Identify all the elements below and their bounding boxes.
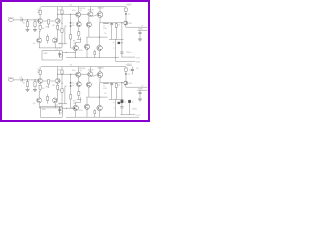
node input junction 1 ch1: [27, 19, 28, 20]
svg-text:Q5: Q5: [80, 70, 83, 72]
wire Q6b down ch1: [88, 27, 90, 37]
wire Q2 to VAS base ch1: [58, 13, 76, 15]
label supply dot ch1: [128, 14, 130, 16]
svg-text:NFB: NFB: [44, 53, 49, 55]
node VAS base junction ch1: [56, 13, 59, 16]
svg-text:C4: C4: [56, 49, 58, 51]
node box wire junction ch2: [65, 107, 68, 110]
label Q8b ch2: [73, 103, 76, 105]
node mid rail junction b ch1: [86, 36, 89, 39]
svg-text:R3: R3: [37, 72, 39, 74]
wire psu cap top ch1: [139, 30, 141, 32]
transistor Q8 ch1: [73, 45, 78, 50]
label zobel2 ch2: [114, 108, 116, 110]
svg-text:C: C: [114, 108, 116, 110]
svg-text:R10: R10: [103, 88, 106, 90]
resistor R9 ch2: [78, 92, 80, 96]
svg-text:R10: R10: [103, 28, 106, 30]
wire Q7 collector ch2: [99, 67, 101, 72]
node input junction 2 ch2: [35, 79, 36, 80]
wire emitters ch1: [43, 20, 56, 22]
label L1 ch1: [103, 26, 105, 28]
wire zobel cap top ch2: [111, 82, 113, 85]
node output junction ch1: [121, 22, 122, 23]
node supply dot ch2: [125, 73, 127, 75]
wire bottom rail ch2: [66, 116, 119, 118]
wire Q4 to gnd line ch1: [54, 43, 56, 48]
label above rail a ch2: [70, 64, 72, 66]
wire D2 down ch2: [70, 87, 72, 95]
label Q4 ch2: [58, 103, 61, 105]
wire signal ground line ch1: [39, 47, 62, 49]
svg-text:OUT: OUT: [136, 57, 141, 59]
svg-text:R3: R3: [37, 12, 39, 14]
transistor Q9 ch1: [84, 44, 89, 49]
svg-text:3055: 3055: [79, 110, 83, 112]
node VAS base junction ch2: [56, 73, 59, 76]
resistor R12 ch1: [70, 35, 72, 39]
wire psu cap top ch2: [139, 90, 141, 92]
label OUT ch2: [136, 115, 141, 117]
transistor Q11 ch1: [124, 21, 128, 25]
svg-text:R1: R1: [23, 83, 25, 85]
wire Q9 collector up ch1: [86, 37, 88, 44]
diode D1 ch2: [70, 82, 72, 83]
label GND ch1: [136, 62, 141, 64]
svg-text:Q5: Q5: [80, 10, 83, 12]
resistor R5 ch2: [39, 85, 41, 89]
wire Q6 emitter down ch2: [88, 77, 90, 82]
transistor Q3 ch2: [37, 98, 42, 103]
wire R2 top ch2: [34, 80, 36, 82]
resistor R13 emitter ch2: [94, 111, 96, 114]
wire input ch1: [14, 19, 21, 21]
svg-text:100n: 100n: [72, 10, 76, 12]
wire psu cap down ch2: [139, 94, 141, 99]
label speaker ch1: [127, 65, 132, 67]
network box ch2: [40, 107, 62, 118]
wire rail to R7 ch2: [61, 67, 63, 70]
resistor R13 emitter ch1: [94, 52, 96, 55]
wire x65 branch ch2: [64, 87, 66, 104]
node R8 top junction ch1: [61, 22, 64, 25]
wire bias top ch1: [70, 14, 72, 22]
label R8v ch2: [58, 90, 61, 92]
cap blob CP2 ch2: [128, 100, 130, 103]
wire Q10 collector up ch1: [99, 23, 101, 46]
ground below R1 ch1: [26, 29, 30, 31]
svg-text:BD139: BD139: [88, 70, 94, 72]
label C7 ch1: [126, 52, 131, 54]
resistor R5 ch1: [39, 25, 41, 29]
wire R7 down ch1: [61, 14, 63, 28]
node gnd line junction ch2: [58, 106, 61, 109]
inductor L1 ch1: [103, 22, 109, 25]
svg-text:D2: D2: [72, 85, 74, 87]
label R6 ch2: [52, 85, 54, 87]
wire rail to R7 ch1: [61, 7, 63, 10]
wire bias to driver ch2: [81, 73, 88, 75]
svg-text:D1: D1: [72, 82, 74, 84]
label zobel1 ch2: [113, 102, 115, 104]
label CP1 ch2: [124, 101, 126, 103]
label Q5 ch2: [80, 68, 86, 70]
wire zobel res down ch1: [115, 27, 117, 39]
svg-text:R: R: [113, 42, 115, 44]
label below rail ch1: [72, 10, 76, 12]
wire Q2 collector ch2: [57, 67, 59, 79]
wire power plus line ch1: [126, 26, 148, 28]
svg-text:2N3055: 2N3055: [98, 8, 105, 10]
label Q5b ch1: [80, 10, 83, 12]
label R10 ch1: [103, 28, 106, 30]
diode D1 ch1: [70, 22, 72, 23]
wire Q8 emitter down ch2: [75, 111, 77, 118]
label R8v ch1: [58, 30, 61, 32]
wire rail end fuse ch2: [125, 67, 127, 68]
node supply dot ch1: [125, 13, 127, 15]
wire output cap branch ch1: [121, 23, 123, 52]
diode D2 ch2: [70, 85, 72, 86]
polar blob ch1: [118, 42, 120, 44]
fuse F1: [125, 8, 128, 11]
wire VAS emitter ch2: [77, 77, 79, 82]
transistor Q4 ch1: [53, 38, 58, 43]
wire x65 branch ch1: [64, 27, 66, 44]
label power ch1: [138, 29, 143, 31]
wire R9 link ch1: [77, 38, 81, 40]
wire R13 down ch2: [94, 109, 96, 117]
label network box ch1: [44, 53, 49, 55]
wire Q7 emitter ch1: [99, 17, 101, 22]
svg-text:R5: R5: [42, 88, 44, 90]
wire R8 down ch1: [61, 32, 63, 47]
wire R1 bottom ch1: [27, 27, 29, 30]
label Q3 ch2: [33, 103, 36, 105]
svg-text:R1: R1: [23, 23, 25, 25]
wire box to Q8 ch2: [62, 107, 76, 109]
transistor Q3 ch1: [37, 38, 42, 43]
svg-text:OUT: OUT: [136, 115, 141, 117]
wire Q5b down ch1: [78, 27, 80, 32]
capacitor C4 in box ch1: [58, 51, 61, 58]
ground below R2 ch1: [33, 29, 37, 31]
label +35V ch2: [126, 63, 132, 66]
transistor Q6 driver ch1: [88, 12, 93, 17]
wire R5 down ch1: [38, 29, 41, 38]
resistor R8 ch2: [61, 88, 63, 92]
transistor Q10 ch2: [97, 105, 102, 110]
wire D2 down ch1: [70, 27, 72, 35]
wire Q1 emitter chain ch1: [39, 23, 41, 25]
wire D1 D2 ch1: [70, 24, 72, 26]
svg-text:BD139: BD139: [88, 10, 94, 12]
wire Q1 emitter chain ch2: [39, 83, 41, 85]
resistor R4 tail ch2: [48, 80, 50, 84]
svg-text:R6: R6: [52, 85, 54, 87]
label Q1 ch1: [37, 9, 40, 11]
capacitor C9 psu ch1: [139, 32, 142, 33]
svg-text:C3: C3: [70, 4, 72, 6]
wire zobel bus ch1: [109, 38, 124, 40]
label network box ch2: [42, 109, 47, 111]
resistor R4 tail ch1: [48, 20, 50, 24]
transistor Q2 ch1: [55, 18, 60, 23]
label Q11 ch2: [128, 83, 132, 85]
capacitor C4 in box ch2: [58, 107, 61, 115]
wire R6 down ch1: [57, 23, 59, 39]
wire y44 link ch2: [59, 103, 68, 105]
svg-text:2200u: 2200u: [132, 109, 137, 111]
wire D1 D2 ch2: [70, 84, 72, 86]
resistor R3 ch1: [39, 10, 41, 14]
label C1 ch2: [20, 77, 22, 79]
wire R1 bottom ch2: [27, 87, 29, 90]
wire blob1 down ch2: [121, 103, 123, 106]
transistor Q6b ch1: [86, 22, 91, 27]
wire R2 top ch1: [34, 20, 36, 22]
wire zobel res top ch1: [115, 22, 117, 25]
wire zobel cap top ch1: [111, 22, 113, 25]
resistor RV1 trimmer ch1: [47, 34, 49, 43]
wire rail end fuse ch1: [125, 7, 127, 8]
wire signal ground line ch2: [39, 107, 62, 109]
polar blob ch2: [118, 102, 120, 104]
wire Q11 down ch1: [125, 25, 127, 27]
wire tail down ch1: [48, 24, 50, 28]
transistor Q11 ch2: [124, 81, 128, 85]
connector J1 input: [8, 19, 13, 22]
wire VAS collector ch2: [77, 67, 79, 72]
resistor R11 zobel ch1: [115, 24, 117, 28]
resistor R2 ch1: [34, 22, 36, 27]
wire VAS emitter ch1: [77, 17, 79, 22]
capacitor C9 psu ch2: [139, 92, 142, 93]
label C5 ch1: [118, 25, 120, 27]
svg-text:C5: C5: [118, 85, 120, 87]
svg-text:C8: C8: [136, 68, 138, 70]
wire Q3 to gnd line ch2: [38, 103, 40, 108]
node R7 junction ch2: [61, 73, 64, 76]
svg-text:22k: 22k: [58, 90, 61, 92]
svg-text:1u: 1u: [132, 101, 134, 103]
capacitor C27 output ch2: [120, 107, 123, 108]
purple page border: [0, 0, 150, 122]
svg-text:C: C: [114, 48, 116, 50]
wire ch2 bottom bus: [119, 116, 139, 118]
label R3 ch1: [37, 12, 39, 14]
wire R7 down ch2: [61, 74, 63, 88]
capacitor C8 ch1: [131, 67, 134, 75]
wire R5 down ch2: [38, 89, 41, 98]
svg-text:R7: R7: [58, 69, 60, 71]
svg-text:C4: C4: [56, 105, 58, 107]
label D1 ch1: [72, 22, 74, 24]
resistor R2 ch2: [34, 82, 36, 87]
connector in box ch2: [59, 110, 62, 113]
label INPUT ch2: [8, 77, 15, 79]
wire zobel cap down ch1: [111, 25, 113, 39]
svg-text:C6: C6: [104, 33, 106, 35]
transistor Q10 ch1: [97, 45, 102, 50]
label R10 ch2: [103, 88, 106, 90]
wire power gnd line ch2: [137, 89, 147, 91]
node bias junction ch2: [69, 73, 72, 76]
wire Q7 collector ch1: [99, 7, 101, 12]
svg-text:D1: D1: [72, 22, 74, 24]
label +35V ch1: [126, 3, 132, 6]
svg-text:NFB: NFB: [42, 109, 47, 111]
svg-text:1u: 1u: [124, 101, 126, 103]
node bias junction ch1: [69, 13, 72, 16]
svg-text:PWR: PWR: [138, 89, 143, 91]
label fuse ch2: [129, 69, 133, 72]
label Q8a ch2: [73, 101, 76, 103]
label OUT ch1: [136, 57, 141, 59]
resistor R7 ch2: [61, 70, 63, 74]
wire input to base ch2: [22, 79, 39, 81]
svg-text:22k: 22k: [58, 30, 61, 32]
svg-text:2200u: 2200u: [126, 52, 131, 54]
transistor Q5 VAS ch1: [76, 12, 81, 17]
inductor L1 ch2: [103, 82, 109, 85]
svg-text:F1: F1: [128, 74, 130, 76]
label zobel1 ch1: [113, 42, 115, 44]
wire C27 down ch2: [121, 108, 123, 114]
resistor R9 ch1: [78, 32, 80, 36]
wire blob2 down ch2: [129, 103, 131, 115]
wire Q6b down ch2: [88, 87, 90, 97]
node box wire junction ch1: [65, 51, 68, 54]
label R1 ch1: [23, 23, 25, 25]
node input junction 1 ch2: [27, 79, 28, 80]
wire Q6 emitter to Q7 ch2: [92, 75, 97, 76]
wire tail down ch2: [48, 84, 50, 88]
label Q7 ch2: [98, 68, 105, 70]
label Q6 ch1: [88, 10, 94, 12]
node blob junction ch2: [121, 102, 122, 103]
label zobel2 ch1: [114, 48, 116, 50]
transistor Q5 VAS ch2: [76, 72, 81, 77]
wire y44 link ch1: [59, 43, 68, 45]
label C27 ch2: [132, 109, 137, 111]
node mid rail junction b ch2: [86, 96, 89, 99]
wire R6 down ch2: [57, 83, 59, 99]
wire R12 down ch2: [70, 99, 72, 108]
wire R9 link ch2: [77, 98, 81, 100]
resistor R12 ch2: [70, 95, 72, 99]
wire Q6 emitter to Q7 ch1: [92, 15, 97, 16]
label Q8b ch1: [73, 43, 76, 45]
svg-text:R8: R8: [64, 86, 66, 88]
wire bias top ch2: [70, 74, 72, 82]
label R5 ch2: [42, 88, 44, 90]
wire R2 bottom ch1: [34, 27, 36, 30]
ground psu ch1: [138, 39, 142, 41]
label R7 ch1: [58, 9, 60, 11]
label Q4 ch1: [58, 43, 61, 45]
label R8 ch2: [64, 86, 66, 88]
wire gnd terminal line ch1: [116, 60, 136, 62]
wire Q2 collector ch1: [57, 7, 59, 19]
wire box to Q8 ch1: [62, 51, 76, 53]
wire fuse to dot ch1: [125, 11, 127, 21]
wire Q6 collector ch1: [89, 7, 91, 12]
wire emitters ch2: [43, 80, 56, 82]
wire Q10 emitter down ch1: [99, 51, 101, 58]
label Q8a ch1: [73, 41, 76, 43]
svg-text:Q3: Q3: [33, 43, 36, 45]
capacitor C5 zobel ch2: [110, 84, 113, 85]
label Q3 ch1: [33, 43, 36, 45]
resistor R11 zobel ch2: [115, 84, 117, 88]
network box ch1: [42, 51, 62, 60]
wire bias to driver ch1: [81, 13, 88, 15]
node R7 junction ch1: [61, 13, 64, 16]
label R4 ch2: [46, 86, 48, 88]
wire Q3 to gnd line ch1: [38, 43, 40, 48]
label Q9 ch2: [79, 110, 83, 112]
wire input ch2: [14, 79, 21, 81]
capacitor C5 zobel ch1: [110, 24, 113, 25]
label C8 ch1: [136, 68, 138, 70]
wire R12 down ch1: [70, 39, 72, 48]
label R4 ch1: [46, 26, 48, 28]
wire power gnd line ch1: [137, 29, 147, 31]
svg-text:Q3: Q3: [33, 103, 36, 105]
wire speaker line ch2: [121, 114, 135, 116]
transistor Q6b ch2: [86, 82, 91, 87]
resistor R3 ch2: [39, 70, 41, 74]
wire rail to R3 ch2: [39, 67, 41, 71]
resistor R1 ch1: [26, 22, 28, 27]
svg-text:+35V: +35V: [126, 3, 132, 6]
svg-text:C3: C3: [70, 64, 72, 66]
transistor Q7 output ch1: [97, 12, 103, 18]
label above box cap ch1: [56, 49, 58, 51]
label D2 ch1: [72, 25, 74, 27]
transistor Q2 ch2: [55, 78, 60, 83]
wire power plus line ch2: [126, 86, 148, 88]
svg-text:C1: C1: [20, 17, 22, 19]
capacitor C7 output ch1: [120, 52, 123, 53]
wire Q9 emitter down ch1: [86, 49, 88, 57]
wire Q9 emitter down ch2: [86, 109, 88, 117]
capacitor C1 ch2: [21, 78, 22, 81]
svg-text:3055: 3055: [79, 50, 83, 52]
label R3 ch2: [37, 72, 39, 74]
svg-text:R4: R4: [46, 26, 48, 28]
label +V in ch2: [141, 85, 144, 87]
label supply dot ch2: [128, 74, 130, 76]
transistor Q9 ch2: [84, 104, 89, 109]
wire bottom rail ch1: [66, 57, 119, 59]
ground below R2 ch2: [33, 89, 37, 91]
label Q7 ch1: [98, 8, 105, 10]
wire Q8 collector ch1: [76, 37, 81, 45]
node R8 top junction ch2: [61, 82, 64, 85]
node mid rail junction ch1: [98, 36, 101, 39]
resistor R1 ch2: [26, 82, 28, 87]
resistor RV1 trimmer ch2: [47, 94, 49, 103]
label Q6 ch2: [88, 70, 94, 72]
label R6 ch1: [52, 25, 54, 27]
wire C7 down ch1: [121, 54, 123, 58]
transistor Q8 ch2: [73, 105, 78, 110]
label D2 ch2: [72, 85, 74, 87]
label Q5b ch2: [80, 70, 83, 72]
transistor Q5b follower ch2: [76, 82, 81, 87]
